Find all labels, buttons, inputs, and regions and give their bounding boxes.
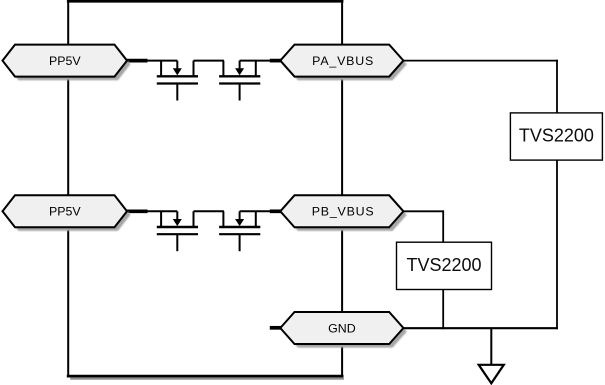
wire: D2 branch vertical upper: [442, 210, 444, 242]
wire: GND stub left (thick): [270, 326, 282, 330]
wire: PP5V row2 stub (thick): [126, 209, 148, 213]
Q2 gate line: [219, 82, 260, 84]
transistor Q3: [157, 211, 198, 251]
net label PB_VBUS (pbvbus): [280, 195, 403, 227]
net label PA_VBUS shadow: [284, 48, 407, 80]
wire: D1 branch vertical lower: [556, 160, 558, 329]
svg-text:TVS2200: TVS2200: [406, 255, 481, 275]
Q3 body arrow: [173, 219, 182, 226]
Q2 drain vertical: [255, 61, 257, 77]
net label PA_VBUS (pavbus): [280, 45, 403, 77]
svg-text:PA_VBUS: PA_VBUS: [312, 54, 374, 68]
wire: top border of loop: [67, 0, 344, 3]
Q3 channel line: [157, 226, 198, 228]
Q1 gate lead: [176, 84, 178, 101]
ground symbol triangle: [479, 365, 504, 384]
diode box D2 TVS2200: [397, 242, 492, 289]
wire: PP5V row1 stub (thick): [126, 59, 148, 63]
wire: PB_VBUS stub (thick): [270, 209, 282, 213]
Q4 channel line: [219, 226, 260, 228]
wire: D1 branch vertical upper: [556, 60, 558, 114]
Q1 gate line: [157, 82, 198, 84]
wire: left border of loop: [67, 0, 69, 377]
Q4 body stem: [239, 211, 241, 221]
wire: Q3 to Q4: [194, 210, 224, 212]
transistor Q4: [219, 211, 260, 251]
Q1 source vertical: [160, 61, 162, 77]
diode box D1 TVS2200: [510, 113, 602, 160]
Q4 gate lead: [239, 234, 241, 251]
Q4 body arrow: [235, 219, 244, 226]
Q3 body stem: [176, 211, 178, 221]
svg-text:PP5V: PP5V: [49, 54, 81, 68]
wire: bottom border of loop: [67, 375, 344, 378]
wire: PA_VBUS to TVS D1 branch horizontal: [403, 60, 558, 62]
wire: right border of loop: [341, 0, 343, 377]
wire: PA_VBUS stub (thick): [270, 59, 282, 63]
ground symbol stem: [490, 328, 492, 365]
Q1 drain vertical: [193, 61, 195, 77]
svg-text:PP5V: PP5V: [49, 205, 81, 219]
Q2 channel line: [219, 75, 260, 77]
Q1 channel line: [157, 75, 198, 77]
Q4 gate line: [219, 233, 260, 235]
Q3 drain vertical: [193, 211, 195, 227]
wire: D2 branch vertical lower: [442, 290, 444, 330]
svg-text:GND: GND: [328, 321, 356, 335]
transistor Q2: [219, 61, 260, 101]
net label GND shadow: [284, 316, 407, 348]
svg-text:PB_VBUS: PB_VBUS: [312, 205, 375, 219]
transistor Q1: [157, 61, 198, 101]
Q1 body stem: [176, 61, 178, 71]
Q4 drain vertical: [255, 211, 257, 227]
Q3 gate lead: [176, 234, 178, 251]
Q2 body stem: [239, 61, 241, 71]
Q3 source vertical: [160, 211, 162, 227]
net label PB_VBUS shadow: [284, 199, 407, 231]
wire: PP5V to Q1: [146, 60, 177, 62]
Q3 gate line: [157, 233, 198, 235]
net label PP5V (pp5v2): [3, 195, 128, 227]
wire: Q1 to Q2: [194, 60, 224, 62]
Q1 body arrow: [173, 68, 182, 75]
wire: Q2 to PA_VBUS: [240, 60, 272, 62]
wire: bottom border shadow: [70, 378, 344, 380]
Q2 source vertical: [222, 61, 224, 77]
wire: PP5V to Q3: [146, 210, 177, 212]
wire: GND net horizontal: [403, 327, 558, 329]
Q2 body arrow: [235, 68, 244, 75]
wire: Q4 to PB_VBUS: [240, 210, 272, 212]
net label GND (gnd): [280, 312, 403, 344]
net label PP5V (pp5v1): [3, 45, 128, 77]
Q4 source vertical: [222, 211, 224, 227]
net label PP5V shadow: [6, 48, 130, 80]
Q2 gate lead: [239, 84, 241, 101]
net label PP5V shadow: [6, 199, 130, 231]
wire: PB_VBUS to D2 branch horizontal: [403, 210, 444, 212]
svg-text:TVS2200: TVS2200: [519, 126, 594, 146]
